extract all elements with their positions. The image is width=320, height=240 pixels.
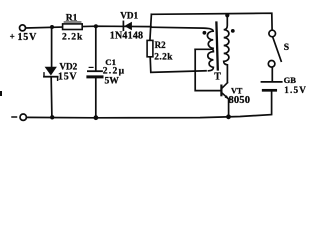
svg-text:2.2k: 2.2k [154,52,173,62]
wire (switch bottom to battery top) [271,67,273,81]
svg-text:15V: 15V [58,72,77,83]
node (junction dot C1 tap) [94,24,98,28]
wire (winding tap to base of VT) [195,49,220,90]
svg-text:2.2k: 2.2k [62,32,83,43]
transformer T core [216,23,217,70]
svg-text:VD2: VD2 [59,62,77,72]
resistor R1 [63,24,83,30]
node (junction dot on top rail, winding tap) [225,13,229,17]
transformer T secondary (right winding, from top rail dot down to collector) [224,15,229,82]
diode VD1 [123,21,131,30]
terminal minus (bottom-left) [20,114,26,120]
resistor R2 [147,40,153,56]
node (phase dot, right winding) [231,29,235,33]
battery GB [262,82,282,90]
label minus sign [12,116,17,118]
node A vertical (top rail to R2) [150,14,152,40]
svg-text:+: + [10,31,15,41]
wire (top rail to switch) [151,13,272,30]
transformer T primary upper (left winding, with top wire from node A) [151,27,213,49]
svg-text:1N4148: 1N4148 [110,31,143,42]
scan artifact left edge [0,91,2,96]
svg-text:S: S [284,42,289,53]
transistor Q1 VT 8050 [221,83,228,100]
node (junction dot VD2 tap) [50,25,54,29]
zener diode VD2 [44,27,58,117]
svg-text:GB: GB [284,75,297,85]
terminal +15V (top-left) [20,25,26,31]
label +15V [10,31,38,43]
svg-text:VT: VT [231,86,243,95]
svg-text:T: T [214,72,221,83]
svg-text:8050: 8050 [229,95,251,106]
node (junction dot emitter on bottom rail) [226,114,231,119]
capacitor C1 (electrolytic) [88,26,102,118]
svg-text:5W: 5W [105,75,120,86]
wire (bottom rail) [27,92,272,118]
wire (emitter down to bottom rail) [228,99,230,116]
wire (R2 bottom to left winding bottom) [150,57,206,73]
svg-text:1.5V: 1.5V [284,85,307,95]
node (junction dot VD2 bottom) [50,115,54,119]
svg-text:15V: 15V [18,32,38,43]
node (junction dot C1 bottom) [94,115,99,120]
node (phase dot, left winding) [203,31,207,35]
switch S [268,30,281,67]
svg-text:R2: R2 [155,40,166,50]
svg-text:VD1: VD1 [120,10,138,20]
wire (top, +15V terminal to node A) [26,26,151,28]
wire (scan double line above R1 box) [64,21,81,23]
transformer T primary lower (left winding) [208,49,214,71]
